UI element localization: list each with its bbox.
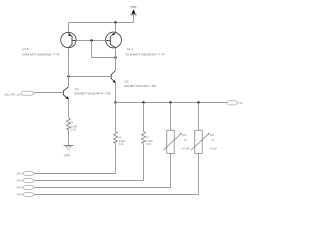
wire R5 to GND	[68, 130, 70, 146]
wire Q2 base	[69, 76, 112, 78]
wire Q2 emitter lead	[115, 83, 117, 103]
port ADC_VREF_1V2	[4, 91, 34, 96]
transistor Q1-B	[61, 32, 76, 47]
wire Q1-A emitter lead	[115, 23, 117, 34]
node mirror input	[114, 56, 116, 58]
svg-text:MMBT3904FA-7B: MMBT3904FA-7B	[124, 84, 156, 88]
svg-text:DMMT3906W-7-F: DMMT3906W-7-F	[22, 52, 60, 56]
svg-text:GPIO2: GPIO2	[17, 179, 24, 183]
svg-text:Q3: Q3	[75, 87, 79, 91]
svg-text:Q2: Q2	[124, 79, 128, 83]
wire column 2 upper	[143, 103, 145, 132]
svg-text:<0.2K: <0.2K	[182, 147, 190, 151]
node bus tap 4	[197, 101, 199, 103]
wire VBB rail	[69, 22, 134, 24]
svg-text:Q1-B: Q1-B	[22, 47, 28, 51]
wire column 3 lower	[35, 153, 171, 187]
label Q3	[74, 87, 111, 96]
node bus left	[114, 101, 116, 103]
wire Q2 collector lead	[115, 58, 117, 71]
node bus tap 2	[142, 101, 144, 103]
ground	[64, 146, 74, 158]
label Q1-A	[126, 47, 165, 56]
trimmer R9	[191, 130, 217, 153]
node bus tap 3	[169, 101, 171, 103]
resistor R7	[142, 132, 153, 147]
wire sense bus	[116, 102, 228, 104]
svg-text:VBB: VBB	[130, 5, 137, 9]
wire column 2 lower	[35, 143, 144, 180]
wire left column	[68, 48, 70, 87]
wire column 1 upper	[115, 103, 117, 132]
wire Q3 emitter lead	[68, 99, 70, 118]
node base junction	[90, 39, 92, 41]
transistor Q2	[111, 71, 116, 84]
trimmer R8	[163, 130, 189, 153]
wire column 4 upper	[198, 103, 200, 131]
label Q2	[124, 79, 156, 88]
svg-text:R11: R11	[210, 133, 214, 137]
transistor Q1-A	[106, 32, 122, 48]
svg-text:DMMT3906W-7-F: DMMT3906W-7-F	[126, 52, 165, 56]
wire Q1-A collector lead	[115, 48, 117, 58]
wire Q1-B emitter lead	[68, 23, 70, 34]
transistor Q3	[63, 87, 68, 100]
wire ADC_VREF to Q3 base	[35, 92, 64, 94]
svg-text:R5: R5	[71, 121, 74, 125]
resistor R5	[67, 118, 78, 132]
svg-text:1K: 1K	[184, 138, 187, 142]
wire base tie	[76, 40, 106, 42]
svg-text:<0.2K: <0.2K	[209, 147, 217, 151]
port ADC	[227, 101, 243, 106]
wire base to collector feedback	[92, 41, 116, 58]
port GPIO4	[17, 193, 35, 197]
svg-text:R10: R10	[182, 133, 186, 137]
port GPIO1	[17, 172, 35, 176]
port GPIO2	[17, 179, 35, 183]
svg-text:0.1%: 0.1%	[71, 128, 77, 132]
label Q1-B	[22, 47, 60, 56]
wire column 4 lower	[35, 153, 199, 194]
svg-text:GND: GND	[64, 153, 71, 157]
svg-text:ADC: ADC	[239, 102, 243, 105]
power symbol VBB	[130, 5, 137, 15]
svg-text:GPIO3: GPIO3	[17, 186, 24, 190]
svg-text:Q1-A: Q1-A	[127, 47, 134, 51]
node Q2 base tap	[67, 75, 69, 77]
port GPIO3	[17, 186, 35, 190]
svg-text:ADC_REF_1V2: ADC_REF_1V2	[4, 92, 21, 96]
svg-text:MMBT3904FA-7B: MMBT3904FA-7B	[74, 92, 111, 96]
wire column 1 lower	[35, 143, 116, 173]
svg-text:0.1%: 0.1%	[146, 142, 152, 146]
wire column 3 upper	[170, 103, 172, 131]
svg-text:0.1%: 0.1%	[119, 142, 125, 146]
resistor R6	[114, 132, 126, 147]
svg-text:GPIO4: GPIO4	[17, 193, 24, 197]
svg-text:GPIO1: GPIO1	[17, 172, 24, 176]
node rail junction	[114, 21, 116, 23]
svg-text:1K: 1K	[212, 138, 215, 142]
wire VBB stem	[133, 15, 135, 23]
